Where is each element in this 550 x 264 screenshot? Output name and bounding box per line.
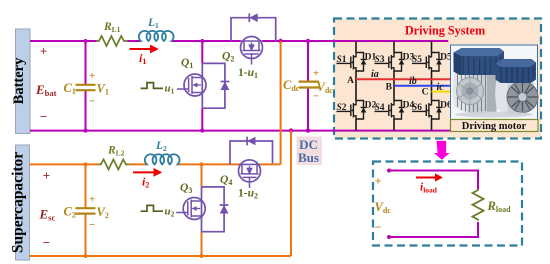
svg-text:−: − xyxy=(43,235,50,250)
switch S4 xyxy=(375,101,405,120)
svg-text:C2: C2 xyxy=(64,205,76,220)
label Vdc (load) xyxy=(375,200,392,215)
wire: C1 branch xyxy=(85,41,87,131)
label Cdc xyxy=(283,78,300,93)
mosfet Q4 xyxy=(239,160,261,188)
label + (battery) xyxy=(40,44,47,59)
svg-text:S3: S3 xyxy=(375,55,385,65)
mosfet Q2 xyxy=(241,37,263,65)
svg-text:Q3: Q3 xyxy=(180,182,192,195)
svg-text:L2: L2 xyxy=(155,140,167,153)
svg-text:RL1: RL1 xyxy=(103,21,121,34)
label ib xyxy=(409,76,417,87)
svg-text:−: − xyxy=(375,220,382,234)
driving motor label box xyxy=(451,120,539,133)
capacitor C2 xyxy=(76,208,96,213)
svg-text:S5: S5 xyxy=(412,55,422,65)
svg-text:A: A xyxy=(347,76,354,86)
current arrow i2 xyxy=(133,168,162,190)
label V2 xyxy=(97,205,109,220)
battery box xyxy=(11,29,30,134)
mosfet Q3 xyxy=(176,187,205,232)
svg-text:Driving System: Driving System xyxy=(405,24,485,38)
diode of Q4 (loop above) xyxy=(230,137,273,165)
node: negative drop junction xyxy=(289,128,293,132)
svg-text:+: + xyxy=(40,44,47,59)
label - (C2) xyxy=(89,219,95,231)
svg-text:Q2: Q2 xyxy=(222,51,234,64)
wire: Q4 output elbow (orange) xyxy=(260,163,280,165)
svg-text:i1: i1 xyxy=(139,51,146,66)
current arrow iload xyxy=(416,173,443,194)
wire: phase C line xyxy=(432,91,451,93)
wire: orange negative rail drop (x=291) xyxy=(290,131,292,256)
svg-text:Bus: Bus xyxy=(298,150,319,165)
label Q1 xyxy=(181,57,193,70)
node: C1 bottom junction xyxy=(84,129,88,133)
inductor L2 xyxy=(145,154,180,164)
svg-text:Q4: Q4 xyxy=(220,174,232,187)
label S2 xyxy=(337,103,347,113)
svg-text:Driving motor: Driving motor xyxy=(462,121,527,132)
right motor body xyxy=(495,75,533,115)
label D5 xyxy=(440,52,452,62)
label RL1 xyxy=(103,21,121,34)
svg-text:L1: L1 xyxy=(147,17,159,30)
label Q3 xyxy=(180,182,192,195)
inverter leg 1 (wires) xyxy=(355,41,357,131)
resistor Rload xyxy=(473,189,484,221)
node: Q3 bottom junction xyxy=(200,254,204,258)
svg-text:Esc: Esc xyxy=(39,207,56,223)
label + (C2) xyxy=(89,194,95,206)
mosfet Q1 xyxy=(177,63,206,108)
label S5 xyxy=(412,55,422,65)
label Ebat xyxy=(35,82,57,98)
svg-text:V1: V1 xyxy=(97,82,109,97)
label S6 xyxy=(412,103,422,113)
svg-text:+: + xyxy=(313,68,319,80)
svg-text:u1: u1 xyxy=(165,83,175,96)
right motor blue top xyxy=(496,59,537,83)
label Vdc (Cdc) xyxy=(317,80,334,95)
label C xyxy=(422,87,429,97)
svg-text:ic: ic xyxy=(437,82,445,93)
label V1 xyxy=(97,82,109,97)
inverter leg 2 (wires) xyxy=(393,41,395,131)
node: Q2 output junction xyxy=(278,39,282,43)
node: Cdc bottom junction xyxy=(306,128,310,132)
svg-text:Supercapacitor: Supercapacitor xyxy=(10,152,27,253)
svg-text:1-u1: 1-u1 xyxy=(238,67,258,80)
label - (supercap) xyxy=(43,235,50,250)
svg-text:u2: u2 xyxy=(165,206,175,219)
resistor RL2 xyxy=(99,159,130,169)
wire: phase B line xyxy=(394,85,450,87)
left motor blue top xyxy=(454,48,505,75)
svg-text:+: + xyxy=(375,174,382,188)
svg-text:Ebat: Ebat xyxy=(35,82,57,98)
label ia xyxy=(371,69,379,80)
svg-text:+: + xyxy=(89,70,95,82)
label D6 xyxy=(440,100,452,110)
svg-text:V2: V2 xyxy=(97,205,109,220)
svg-text:+: + xyxy=(89,194,95,206)
wire: battery top rail (magenta) xyxy=(30,40,448,42)
svg-text:ia: ia xyxy=(371,69,379,80)
label S1 xyxy=(337,55,347,65)
driving motor photo xyxy=(451,45,539,120)
diode of Q1 (body diode loop) xyxy=(202,63,229,108)
shadow xyxy=(455,112,533,118)
label - (battery) xyxy=(40,109,47,124)
DC Bus label xyxy=(297,137,323,166)
label A xyxy=(347,76,354,86)
svg-text:Q1: Q1 xyxy=(181,57,193,70)
switch S3 xyxy=(375,53,405,72)
label Esc xyxy=(39,207,56,223)
label C2 xyxy=(64,205,76,220)
svg-text:Cdc: Cdc xyxy=(283,78,300,93)
label S3 xyxy=(375,55,385,65)
node: C1 top junction xyxy=(84,39,88,43)
current arrow i1 xyxy=(130,45,159,66)
driving system box xyxy=(334,19,541,139)
svg-text:−: − xyxy=(89,219,95,231)
wire: supercap top rail (orange) xyxy=(30,163,240,165)
wire: Q3 branch (orange ends) xyxy=(201,164,203,256)
svg-text:iload: iload xyxy=(420,182,438,195)
svg-text:−: − xyxy=(89,96,95,108)
diode of Q3 (body diode loop) xyxy=(202,187,229,232)
svg-text:RL2: RL2 xyxy=(107,145,125,158)
wire: C2 branch xyxy=(85,164,87,256)
capacitor C1 xyxy=(76,85,96,90)
label - (Cdc) xyxy=(313,91,319,103)
svg-text:ib: ib xyxy=(409,76,417,87)
inductor L1 xyxy=(139,31,174,41)
svg-text:S2: S2 xyxy=(337,103,347,113)
switch S2 xyxy=(337,101,367,120)
svg-text:1-u2: 1-u2 xyxy=(238,188,258,201)
svg-text:S6: S6 xyxy=(412,103,422,113)
label D4 xyxy=(403,100,415,110)
label L1 xyxy=(147,17,159,30)
svg-text:Vdc: Vdc xyxy=(375,200,392,215)
switch S6 xyxy=(412,101,442,120)
node: Cdc top junction xyxy=(306,39,310,43)
svg-text:+: + xyxy=(43,168,50,183)
node: C2 bottom junction xyxy=(84,254,88,258)
inverter leg 3 (wires) xyxy=(431,41,433,131)
svg-text:C1: C1 xyxy=(64,81,76,96)
label D1 xyxy=(365,52,377,62)
label - (C1) xyxy=(89,96,95,108)
label S4 xyxy=(375,103,385,113)
resistor RL1 xyxy=(97,36,128,46)
label 1-u2 xyxy=(238,188,258,201)
label D2 xyxy=(365,100,377,110)
magenta block arrow xyxy=(434,141,450,160)
svg-text:C: C xyxy=(422,87,429,97)
label + (load) xyxy=(375,174,382,188)
capacitor Cdc branch wire xyxy=(307,41,309,131)
wire: Q1 branch (magenta ends) xyxy=(201,41,203,131)
label - (load) xyxy=(375,220,382,234)
wire: orange drop from Q2 junction to Q4 output xyxy=(280,41,282,164)
label Q4 xyxy=(220,174,232,187)
node: load + terminal xyxy=(387,169,391,173)
wire: battery bottom rail (magenta) xyxy=(30,130,451,132)
source u1 (gate signal square wave) xyxy=(141,83,175,96)
wire: load top xyxy=(389,171,478,190)
load box xyxy=(373,162,522,246)
capacitor Cdc xyxy=(299,82,319,88)
svg-text:−: − xyxy=(40,109,47,124)
svg-text:−: − xyxy=(313,91,319,103)
diode of Q2 (loop above) xyxy=(231,13,276,41)
svg-text:i2: i2 xyxy=(142,175,149,190)
node: load - terminal xyxy=(387,235,391,239)
label ic xyxy=(437,82,445,93)
node: Q1 bottom junction xyxy=(200,129,204,133)
label C1 xyxy=(64,81,76,96)
node: Q3 top junction xyxy=(200,162,204,166)
label Q2 xyxy=(222,51,234,64)
svg-text:S1: S1 xyxy=(337,55,347,65)
source u2 (gate signal square wave) xyxy=(141,205,175,218)
wire: load bottom xyxy=(389,222,478,237)
svg-text:Rload: Rload xyxy=(487,199,512,214)
wire: phase A line xyxy=(356,78,450,80)
wire: supercap bottom rail (orange) xyxy=(30,255,292,257)
node: C2 top junction xyxy=(84,162,88,166)
label RL2 xyxy=(107,145,125,158)
label + (C1) xyxy=(89,70,95,82)
label + (Cdc) xyxy=(313,68,319,80)
label Rload xyxy=(487,199,512,214)
label + (supercap) xyxy=(43,168,50,183)
label B xyxy=(386,83,393,93)
node: Q1 top junction xyxy=(200,39,204,43)
switch S5 xyxy=(412,53,442,72)
supercapacitor box xyxy=(10,145,30,260)
svg-text:Battery: Battery xyxy=(11,57,27,104)
label 1-u1 xyxy=(238,67,258,80)
switch S1 xyxy=(337,53,367,72)
svg-text:B: B xyxy=(386,83,393,93)
left motor body xyxy=(453,67,497,114)
label L2 xyxy=(155,140,167,153)
svg-text:S4: S4 xyxy=(375,103,385,113)
label D3 xyxy=(403,52,415,62)
